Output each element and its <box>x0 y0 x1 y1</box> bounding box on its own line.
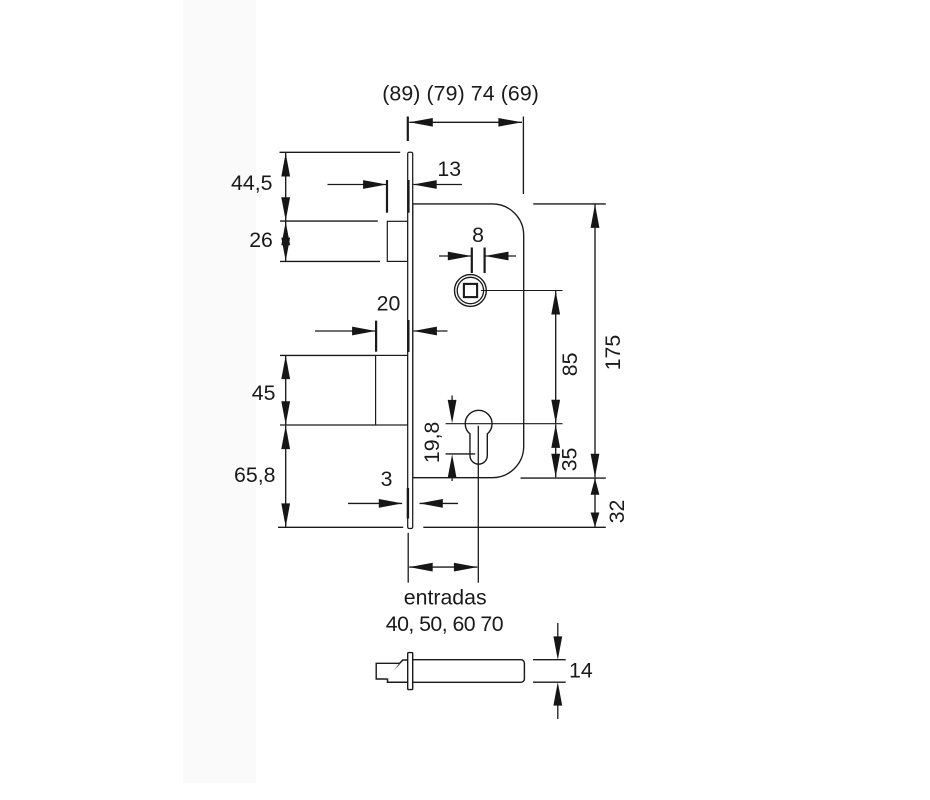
left dimension line 44,5 <box>285 153 287 221</box>
bolt head <box>388 660 408 682</box>
20 dimension arrow tails <box>315 330 375 332</box>
8 tick right <box>484 248 486 274</box>
cylinder axis vertical line <box>477 426 479 583</box>
14 top extension line <box>533 659 566 661</box>
svg-text:(89) (79) 74 (69): (89) (79) 74 (69) <box>382 81 539 105</box>
svg-text:8: 8 <box>472 223 484 247</box>
3 arrows <box>379 499 403 508</box>
74 right extension line <box>522 117 524 195</box>
faceplate front view <box>408 152 413 528</box>
26 arrows <box>281 222 290 246</box>
19,8 bottom arrow tail <box>451 475 453 481</box>
bolt tip <box>376 663 399 679</box>
bolt bar (bottom view) <box>413 660 525 683</box>
svg-text:20: 20 <box>377 291 401 315</box>
left extension line latch bottom <box>280 260 380 262</box>
latch box <box>387 221 407 261</box>
faceplate cross-section (bottom view) <box>408 653 413 690</box>
left extension line top (faceplate top) <box>280 151 401 153</box>
svg-text:3: 3 <box>381 467 393 491</box>
entradas dimension line <box>409 566 477 568</box>
13 tick right (on faceplate) <box>407 180 409 213</box>
svg-text:19,8: 19,8 <box>420 422 444 463</box>
32 arrows <box>591 478 600 494</box>
19,8 arrows <box>448 400 457 424</box>
20 tick right (on faceplate) <box>407 320 409 352</box>
14 arrows <box>553 636 562 660</box>
3 dimension arrow tails <box>348 502 402 504</box>
dimension line 175 <box>594 204 596 477</box>
cylinder centerline <box>446 423 563 425</box>
175 arrows <box>591 204 600 228</box>
svg-text:45: 45 <box>252 381 276 405</box>
20 arrows <box>352 327 376 336</box>
svg-text:26: 26 <box>249 228 273 252</box>
svg-text:14: 14 <box>569 659 593 683</box>
left extension line deadbolt top <box>280 354 375 356</box>
svg-text:35: 35 <box>557 448 581 472</box>
13 arrows <box>363 180 387 189</box>
svg-text:85: 85 <box>558 352 582 376</box>
74 left tick <box>407 117 409 142</box>
dimension line 32 <box>594 478 596 527</box>
svg-text:13: 13 <box>437 157 461 181</box>
14 bottom arrow tail <box>557 704 559 719</box>
arrowheads <box>281 118 599 706</box>
bottom extension line left part <box>278 526 403 528</box>
left dimension line 65,8 <box>285 426 287 527</box>
svg-text:40, 50, 60 70: 40, 50, 60 70 <box>386 612 504 636</box>
follower centerline <box>481 290 563 292</box>
8 dimension arrow tails <box>439 255 471 257</box>
svg-text:32: 32 <box>605 500 629 524</box>
8 tick left <box>471 248 473 274</box>
44,5 arrows <box>281 153 290 177</box>
14 bottom extension line <box>533 681 566 683</box>
85 arrows <box>551 291 560 315</box>
dimension line 85-35 <box>555 291 557 423</box>
lock body outline <box>413 204 524 478</box>
euro cylinder hole <box>465 410 492 464</box>
8 arrows <box>448 252 472 261</box>
left dimension line 26 <box>285 222 287 262</box>
74 arrows <box>409 118 433 127</box>
follower outer circle <box>455 275 487 307</box>
deadbolt box <box>376 355 408 425</box>
follower inner circle <box>457 277 483 303</box>
20 tick left <box>375 321 377 352</box>
bottom extension line right part <box>423 526 606 528</box>
body bottom extension line <box>521 477 606 479</box>
left extension line deadbolt bottom <box>280 424 375 426</box>
svg-text:44,5: 44,5 <box>231 171 272 195</box>
light band <box>183 0 256 783</box>
35 arrows <box>551 424 560 448</box>
left dimension line 45 <box>285 356 287 425</box>
19,8 lower reference line <box>446 453 476 455</box>
45 arrows <box>281 356 290 380</box>
svg-text:175: 175 <box>601 335 625 371</box>
entradas left extension line <box>407 533 409 583</box>
14 top arrow tail <box>557 623 559 638</box>
13 tick left <box>386 180 388 213</box>
svg-text:entradas: entradas <box>404 586 487 610</box>
left extension line latch top <box>280 220 378 222</box>
3 tick (on faceplate left edge) <box>407 488 409 519</box>
19,8 top arrow tail <box>451 396 453 403</box>
13 dimension arrow tails <box>328 184 387 186</box>
entradas arrows <box>409 563 433 572</box>
follower square hole <box>464 284 477 297</box>
74 dimension line <box>409 121 522 123</box>
svg-text:65,8: 65,8 <box>234 463 275 487</box>
65,8 arrows <box>281 426 290 450</box>
body top extension line <box>533 203 606 205</box>
